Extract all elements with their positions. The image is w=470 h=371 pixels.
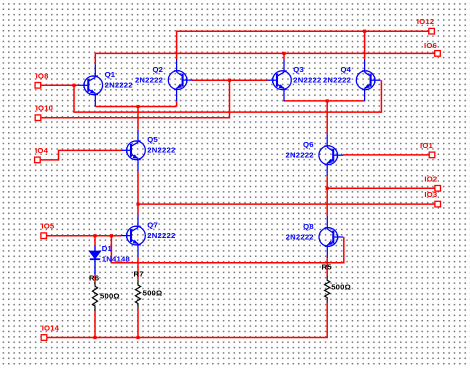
wire down to D1 anode (94, 236, 96, 246)
svg-text:1N4148: 1N4148 (102, 254, 131, 263)
svg-text:2N2222: 2N2222 (105, 81, 133, 90)
svg-text:2N2222: 2N2222 (135, 75, 163, 84)
svg-text:IO4: IO4 (35, 146, 49, 155)
connector IO4 (35, 157, 41, 163)
junction J4 emitter rail to Q5 (136, 105, 139, 108)
wire to IO2 (327, 187, 435, 189)
svg-text:Q5: Q5 (147, 135, 158, 144)
wire Q6 base to IO1 (343, 154, 429, 156)
transistor Q8 2N2222 (319, 216, 343, 258)
wire D1 cathode to R6 (94, 275, 96, 282)
svg-text:Q6: Q6 (303, 140, 314, 149)
wire Q7 emitter to R7 (137, 257, 139, 280)
resistor R5 500ohm (325, 276, 330, 303)
junction J11 R6 to rail (93, 336, 96, 339)
transistor Q6 2N2222 (319, 134, 343, 176)
resistor R6 500ohm (92, 282, 97, 311)
connector IO6 (435, 51, 441, 57)
diode D1 1N4148 (90, 246, 100, 275)
junction J6 emitter rail to Q6 (326, 99, 329, 102)
wire down to Q6 collector (326, 101, 328, 134)
wire Q6 emitter to Q8 collector (326, 176, 328, 216)
wire IO5 branch to Q8 base (111, 236, 343, 263)
wire IO4 to Q5 base (40, 150, 121, 160)
svg-text:Q8: Q8 (303, 222, 314, 231)
svg-text:500Ω: 500Ω (331, 282, 351, 291)
svg-text:IO14: IO14 (42, 324, 60, 333)
transistor Q7 2N2222 (121, 215, 145, 257)
resistor R7 500ohm (135, 280, 140, 309)
junction J1 on IO12 wire (363, 30, 366, 33)
junction J5 base rail to IO10 (228, 79, 231, 82)
wire IO5 to Q7 base (47, 235, 122, 237)
wire to IO3 (138, 203, 435, 205)
junction J7 on IO5 wire (93, 234, 96, 237)
connector IO1 (429, 152, 435, 158)
svg-text:2N2222: 2N2222 (147, 231, 175, 240)
svg-text:IO1: IO1 (420, 141, 434, 150)
svg-text:R6: R6 (89, 273, 99, 282)
svg-text:Q4: Q4 (340, 65, 351, 74)
wire IO10 up to base rail (41, 80, 229, 118)
svg-text:Q3: Q3 (293, 65, 304, 74)
connector IO5 (41, 233, 47, 239)
transistor Q3 2N2222 (267, 59, 291, 101)
connector IO8 (35, 83, 41, 89)
svg-text:2N2222: 2N2222 (147, 146, 175, 155)
wire R5 to IO14 rail (47, 303, 327, 338)
transistor Q5 2N2222 (121, 129, 145, 171)
svg-text:Q1: Q1 (105, 70, 116, 79)
wire Q2 emitter stub (176, 101, 178, 106)
svg-text:IO5: IO5 (41, 222, 55, 231)
junction J8 on IO5 wire (110, 234, 113, 237)
wire R6 to ground rail (94, 311, 96, 338)
wire Q1 emitter to Q2 emitter (95, 106, 176, 108)
svg-text:500Ω: 500Ω (143, 288, 163, 297)
svg-text:Q7: Q7 (147, 220, 158, 229)
wire Q5 emitter to Q7 collector (137, 171, 139, 214)
transistor Q2 2N2222 (168, 59, 192, 101)
transistor Q4 2N2222 (356, 59, 380, 101)
wire net IO6: Q1 collector to IO6 (95, 53, 434, 64)
wire branch to Q3 collector (283, 53, 285, 59)
connector IO10 (35, 115, 41, 121)
wire Q2 base to Q3 base (192, 79, 267, 81)
svg-text:IO10: IO10 (36, 104, 53, 113)
svg-text:IO6: IO6 (424, 41, 437, 50)
svg-text:IO8: IO8 (36, 71, 50, 80)
junction J12 R7 to rail (136, 336, 139, 339)
svg-text:2N2222: 2N2222 (323, 76, 351, 85)
wire Q3 emitter to Q4 emitter (284, 100, 365, 102)
wire IO8 to Q1 base (41, 84, 79, 86)
connector IO3 (435, 201, 441, 207)
wire branch to Q4 collector (364, 31, 366, 59)
svg-text:500Ω: 500Ω (100, 291, 120, 300)
wire IO8 branch to Q4 base (74, 80, 381, 112)
svg-text:2N2222: 2N2222 (286, 151, 314, 160)
connector IO12 (429, 28, 435, 34)
svg-text:R5: R5 (322, 263, 333, 272)
svg-text:IO3: IO3 (424, 190, 437, 199)
svg-text:Q2: Q2 (152, 65, 163, 74)
junction J3 on IO8 wire (72, 84, 75, 87)
junction J10 on Q5 emitter wire (136, 203, 139, 206)
connector IO14 (41, 335, 47, 341)
connector IO2 (435, 186, 441, 192)
wire R7 to ground rail (137, 309, 139, 338)
svg-text:IO2: IO2 (424, 174, 437, 183)
svg-text:2N2222: 2N2222 (293, 76, 321, 85)
junction J9 on Q6 emitter wire (326, 187, 329, 190)
wire Q8 emitter to R5 (326, 258, 328, 275)
svg-text:2N2222: 2N2222 (286, 232, 314, 241)
transistor Q1 2N2222 (78, 64, 102, 106)
svg-text:D1: D1 (102, 244, 113, 253)
svg-text:IO12: IO12 (417, 17, 434, 26)
svg-text:R7: R7 (134, 270, 144, 279)
wire down to Q5 collector (137, 107, 139, 130)
junction J2 on IO6 wire (282, 52, 285, 55)
wire net IO12: Q2 collector to IO12 (177, 31, 429, 59)
